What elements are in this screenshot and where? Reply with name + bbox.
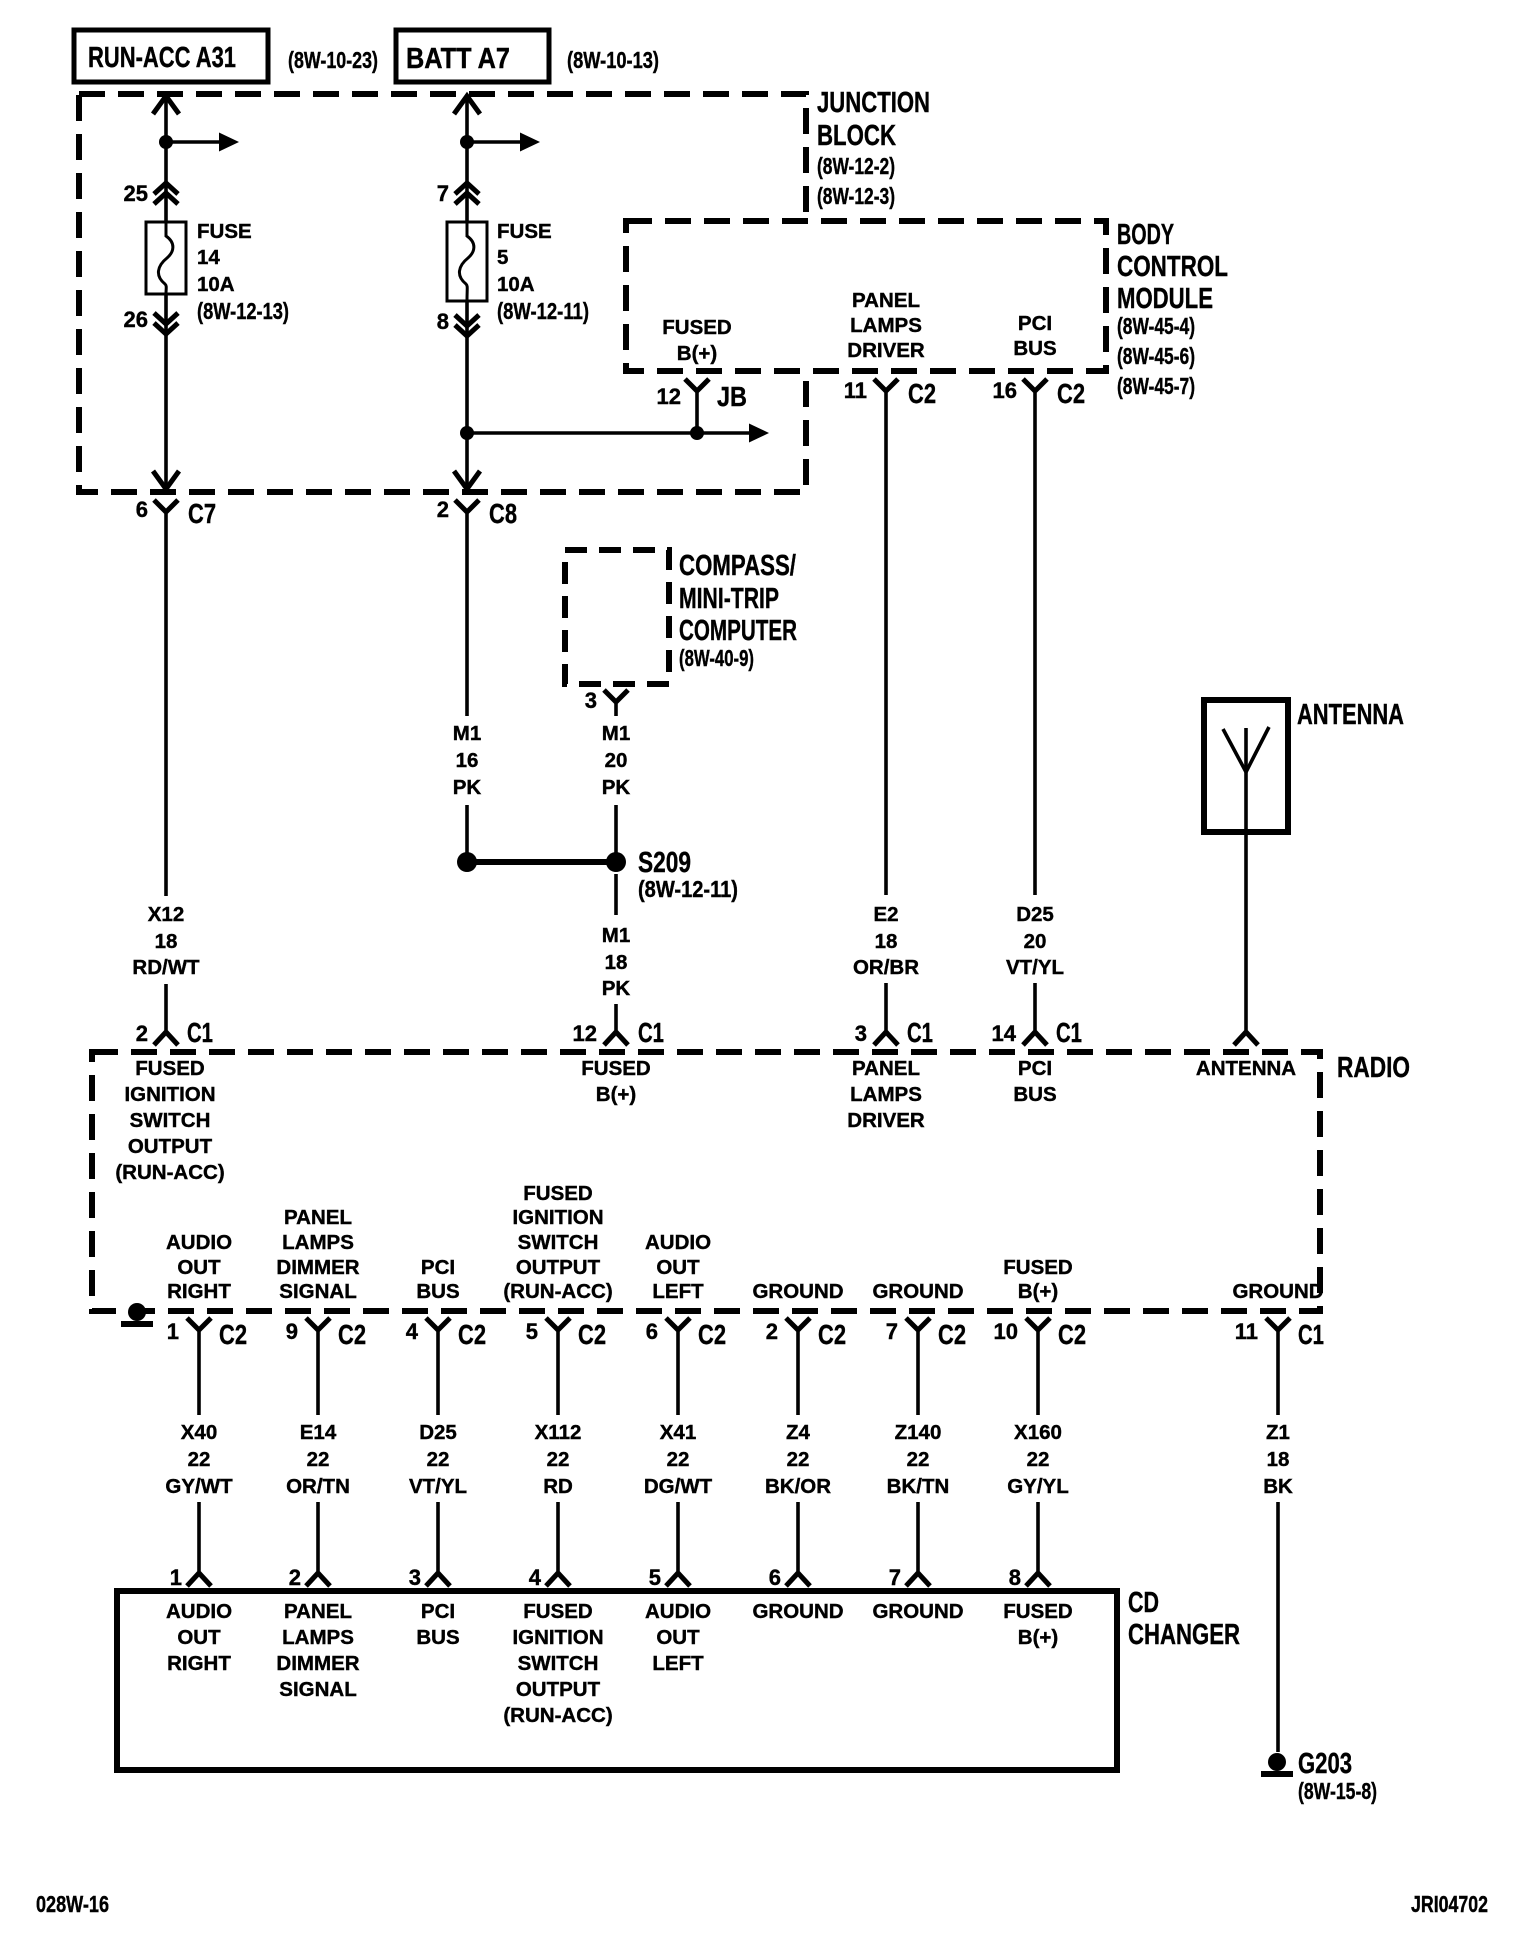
- svg-text:DIMMER: DIMMER: [276, 1256, 359, 1279]
- svg-text:SWITCH: SWITCH: [130, 1109, 211, 1132]
- antenna symbol: [1244, 728, 1248, 831]
- node junction on RUN-ACC feed: [159, 135, 173, 149]
- svg-text:2: 2: [766, 1319, 778, 1344]
- svg-text:D25: D25: [1016, 903, 1054, 926]
- svg-text:RUN-ACC A31: RUN-ACC A31: [88, 42, 236, 74]
- svg-text:FUSE: FUSE: [497, 220, 552, 243]
- svg-text:PCI: PCI: [421, 1600, 455, 1623]
- wire D25 22 VT/YL: [436, 1330, 440, 1415]
- svg-text:DRIVER: DRIVER: [847, 1109, 925, 1132]
- svg-text:BUS: BUS: [416, 1626, 459, 1649]
- svg-text:2: 2: [437, 497, 449, 522]
- svg-text:(RUN-ACC): (RUN-ACC): [503, 1280, 612, 1303]
- splice S209 right node: [606, 852, 626, 872]
- svg-text:BK/OR: BK/OR: [765, 1475, 831, 1498]
- svg-text:PK: PK: [602, 977, 631, 1000]
- svg-text:BK: BK: [1263, 1475, 1293, 1498]
- svg-text:C2: C2: [338, 1319, 366, 1350]
- svg-text:LAMPS: LAMPS: [850, 1083, 922, 1106]
- arrow down to junction block edge: [454, 471, 480, 489]
- svg-text:B(+): B(+): [677, 342, 717, 365]
- svg-text:IGNITION: IGNITION: [512, 1206, 603, 1229]
- svg-text:25: 25: [124, 181, 148, 206]
- svg-text:COMPUTER: COMPUTER: [679, 615, 797, 647]
- svg-text:C2: C2: [1057, 378, 1085, 409]
- svg-text:AUDIO: AUDIO: [166, 1231, 232, 1254]
- svg-text:11: 11: [844, 378, 867, 403]
- svg-text:LAMPS: LAMPS: [850, 314, 922, 337]
- node junction on BATT feed: [460, 135, 474, 149]
- svg-text:C1: C1: [638, 1017, 664, 1048]
- svg-text:SIGNAL: SIGNAL: [279, 1678, 356, 1701]
- svg-text:(8W-15-8): (8W-15-8): [1298, 1778, 1377, 1804]
- svg-text:16: 16: [993, 378, 1017, 403]
- antenna connector at radio: [1234, 1032, 1258, 1045]
- svg-text:DIMMER: DIMMER: [276, 1652, 359, 1675]
- svg-text:CD: CD: [1128, 1587, 1159, 1619]
- wire X112 22 RD: [556, 1330, 560, 1415]
- svg-text:BODY: BODY: [1117, 219, 1174, 251]
- svg-text:RD/WT: RD/WT: [132, 956, 200, 979]
- svg-text:FUSED: FUSED: [581, 1057, 650, 1080]
- svg-text:X160: X160: [1014, 1421, 1062, 1444]
- svg-text:OUTPUT: OUTPUT: [516, 1256, 601, 1279]
- svg-text:028W-16: 028W-16: [36, 1891, 109, 1917]
- svg-text:14: 14: [992, 1021, 1017, 1046]
- svg-text:LAMPS: LAMPS: [282, 1231, 354, 1254]
- svg-text:5: 5: [526, 1319, 538, 1344]
- svg-text:GY/YL: GY/YL: [1007, 1475, 1069, 1498]
- svg-text:M1: M1: [602, 924, 630, 947]
- svg-text:22: 22: [427, 1448, 450, 1471]
- svg-text:GROUND: GROUND: [872, 1600, 963, 1623]
- compass mini-trip computer dashed box: [565, 550, 669, 684]
- svg-text:(8W-12-3): (8W-12-3): [817, 183, 895, 209]
- svg-text:FUSED: FUSED: [135, 1057, 204, 1080]
- svg-text:AUDIO: AUDIO: [645, 1231, 711, 1254]
- svg-text:OUT: OUT: [177, 1626, 221, 1649]
- svg-text:B(+): B(+): [1018, 1626, 1058, 1649]
- svg-text:5: 5: [649, 1565, 661, 1590]
- cd changer box: [117, 1591, 1117, 1770]
- wire Z1 18 BK ground lead: [1276, 1330, 1280, 1415]
- svg-text:B(+): B(+): [1018, 1280, 1058, 1303]
- svg-text:(8W-12-11): (8W-12-11): [638, 876, 738, 902]
- splice S209 bus wire: [467, 859, 616, 865]
- svg-text:PK: PK: [453, 776, 482, 799]
- svg-text:E2: E2: [873, 903, 898, 926]
- svg-text:JB: JB: [717, 381, 747, 412]
- svg-text:10A: 10A: [197, 273, 235, 296]
- svg-text:E14: E14: [300, 1421, 337, 1444]
- wire fuse 5 to C8: [465, 301, 469, 489]
- svg-text:22: 22: [547, 1448, 570, 1471]
- svg-text:(8W-12-2): (8W-12-2): [817, 153, 895, 179]
- svg-text:FUSED: FUSED: [1003, 1600, 1072, 1623]
- svg-text:(RUN-ACC): (RUN-ACC): [115, 1161, 224, 1184]
- svg-text:GROUND: GROUND: [752, 1600, 843, 1623]
- svg-text:S209: S209: [638, 847, 691, 879]
- wire fused B+ branch with arrow: [467, 431, 749, 435]
- svg-text:BK/TN: BK/TN: [887, 1475, 950, 1498]
- svg-text:ANTENNA: ANTENNA: [1196, 1057, 1296, 1080]
- svg-text:X40: X40: [181, 1421, 217, 1444]
- svg-text:C1: C1: [907, 1017, 933, 1048]
- svg-text:C7: C7: [188, 498, 216, 529]
- svg-text:8: 8: [1009, 1565, 1021, 1590]
- svg-text:FUSED: FUSED: [1003, 1256, 1072, 1279]
- connector pin 7 chevrons: [455, 183, 479, 194]
- svg-text:10: 10: [994, 1319, 1018, 1344]
- wire M1 18 PK to radio: [614, 874, 618, 915]
- svg-text:CONTROL: CONTROL: [1117, 251, 1228, 283]
- svg-text:PCI: PCI: [421, 1256, 455, 1279]
- arrow down to junction block edge: [153, 471, 179, 489]
- branch arrow right from BATT: [467, 140, 521, 144]
- fuse 14 10A: [146, 222, 186, 294]
- svg-text:OUTPUT: OUTPUT: [128, 1135, 213, 1158]
- svg-text:Z140: Z140: [895, 1421, 942, 1444]
- svg-text:BATT A7: BATT A7: [406, 43, 510, 75]
- connector pin 8 chevrons: [455, 315, 479, 326]
- svg-text:C2: C2: [698, 1319, 726, 1350]
- svg-text:3: 3: [409, 1565, 421, 1590]
- arrow up into BATT A7: [454, 96, 480, 114]
- svg-text:C2: C2: [1058, 1319, 1086, 1350]
- antenna box: [1204, 700, 1288, 832]
- svg-text:SWITCH: SWITCH: [518, 1231, 599, 1254]
- svg-text:VT/YL: VT/YL: [409, 1475, 467, 1498]
- radio dashed box: [92, 1052, 1320, 1311]
- svg-text:PCI: PCI: [1018, 312, 1052, 335]
- svg-text:X112: X112: [535, 1421, 582, 1444]
- svg-text:SWITCH: SWITCH: [518, 1652, 599, 1675]
- svg-text:MINI-TRIP: MINI-TRIP: [679, 583, 779, 615]
- ground G203: [1268, 1753, 1286, 1771]
- svg-text:6: 6: [136, 497, 148, 522]
- svg-text:OR/TN: OR/TN: [286, 1475, 350, 1498]
- svg-text:PK: PK: [602, 776, 631, 799]
- svg-text:GY/WT: GY/WT: [165, 1475, 233, 1498]
- wire X40 22 GY/WT: [197, 1330, 201, 1415]
- svg-text:GROUND: GROUND: [872, 1280, 963, 1303]
- svg-text:IGNITION: IGNITION: [124, 1083, 215, 1106]
- svg-text:VT/YL: VT/YL: [1006, 956, 1064, 979]
- svg-text:LAMPS: LAMPS: [282, 1626, 354, 1649]
- wire D25 20 VT/YL: [1033, 391, 1037, 895]
- svg-text:22: 22: [787, 1448, 810, 1471]
- svg-text:BUS: BUS: [1013, 1083, 1056, 1106]
- svg-text:(8W-12-13): (8W-12-13): [197, 298, 289, 324]
- fuse 5 10A: [447, 222, 487, 301]
- node junction to fused B+ branch: [460, 426, 474, 440]
- svg-text:BUS: BUS: [1013, 337, 1056, 360]
- svg-text:ANTENNA: ANTENNA: [1297, 699, 1404, 731]
- svg-text:LEFT: LEFT: [652, 1652, 704, 1675]
- svg-text:M1: M1: [453, 722, 481, 745]
- svg-text:C1: C1: [1298, 1319, 1324, 1350]
- svg-text:RADIO: RADIO: [1337, 1052, 1410, 1084]
- wire X41 22 DG/WT: [676, 1330, 680, 1415]
- svg-text:RD: RD: [543, 1475, 573, 1498]
- svg-text:18: 18: [875, 930, 898, 953]
- wire BATT feed: [465, 96, 469, 222]
- svg-text:JUNCTION: JUNCTION: [817, 87, 930, 119]
- svg-text:11: 11: [1235, 1319, 1258, 1344]
- svg-text:PCI: PCI: [1018, 1057, 1052, 1080]
- power node box RUN-ACC A31: [74, 30, 268, 82]
- svg-text:X41: X41: [660, 1421, 696, 1444]
- svg-text:SIGNAL: SIGNAL: [279, 1280, 356, 1303]
- svg-text:PANEL: PANEL: [852, 289, 920, 312]
- wire antenna lead to radio: [1244, 832, 1248, 1032]
- svg-text:4: 4: [529, 1565, 542, 1590]
- svg-text:1: 1: [170, 1565, 182, 1590]
- svg-text:3: 3: [855, 1021, 867, 1046]
- power node box BATT A7: [396, 30, 549, 82]
- svg-text:Z1: Z1: [1266, 1421, 1290, 1444]
- svg-text:20: 20: [605, 749, 628, 772]
- svg-text:AUDIO: AUDIO: [645, 1600, 711, 1623]
- svg-text:5: 5: [497, 246, 508, 269]
- svg-text:X12: X12: [148, 903, 184, 926]
- svg-text:C2: C2: [818, 1319, 846, 1350]
- svg-text:(8W-45-4): (8W-45-4): [1117, 313, 1195, 339]
- svg-text:6: 6: [646, 1319, 658, 1344]
- svg-text:12: 12: [573, 1021, 597, 1046]
- svg-text:22: 22: [1027, 1448, 1050, 1471]
- svg-text:16: 16: [456, 749, 479, 772]
- svg-text:(8W-40-9): (8W-40-9): [679, 645, 754, 671]
- svg-text:LEFT: LEFT: [652, 1280, 704, 1303]
- svg-text:DRIVER: DRIVER: [847, 339, 925, 362]
- wire X160 22 GY/YL: [1036, 1330, 1040, 1415]
- svg-text:18: 18: [1267, 1448, 1290, 1471]
- svg-text:C1: C1: [187, 1017, 213, 1048]
- svg-text:CHANGER: CHANGER: [1128, 1619, 1240, 1651]
- svg-text:22: 22: [907, 1448, 930, 1471]
- svg-text:C2: C2: [938, 1319, 966, 1350]
- svg-text:20: 20: [1024, 930, 1047, 953]
- svg-text:10A: 10A: [497, 273, 535, 296]
- wire fuse 14 to C7: [164, 294, 168, 489]
- svg-text:(8W-10-13): (8W-10-13): [567, 47, 659, 73]
- svg-text:OR/BR: OR/BR: [853, 956, 919, 979]
- svg-text:1: 1: [167, 1319, 179, 1344]
- svg-text:PANEL: PANEL: [284, 1600, 352, 1623]
- svg-text:G203: G203: [1298, 1748, 1352, 1780]
- node junction at JB pin 12: [690, 426, 704, 440]
- svg-text:C2: C2: [219, 1319, 247, 1350]
- svg-text:C8: C8: [489, 498, 517, 529]
- svg-text:7: 7: [437, 181, 449, 206]
- svg-text:OUTPUT: OUTPUT: [516, 1678, 601, 1701]
- svg-text:2: 2: [136, 1021, 148, 1046]
- svg-text:9: 9: [286, 1319, 298, 1344]
- wire M1 20 PK: [614, 702, 618, 716]
- svg-text:C2: C2: [458, 1319, 486, 1350]
- wire M1 16 PK: [465, 512, 469, 716]
- svg-text:C2: C2: [578, 1319, 606, 1350]
- svg-text:(8W-10-23): (8W-10-23): [288, 47, 378, 73]
- svg-text:RIGHT: RIGHT: [167, 1280, 231, 1303]
- svg-text:6: 6: [769, 1565, 781, 1590]
- svg-text:PANEL: PANEL: [284, 1206, 352, 1229]
- svg-text:2: 2: [289, 1565, 301, 1590]
- svg-text:18: 18: [605, 951, 628, 974]
- svg-text:4: 4: [406, 1319, 419, 1344]
- svg-text:JRI04702: JRI04702: [1411, 1891, 1488, 1917]
- svg-text:B(+): B(+): [596, 1083, 636, 1106]
- svg-text:OUT: OUT: [656, 1626, 700, 1649]
- svg-text:OUT: OUT: [656, 1256, 700, 1279]
- svg-text:GROUND: GROUND: [752, 1280, 843, 1303]
- svg-text:FUSED: FUSED: [523, 1600, 592, 1623]
- svg-text:PANEL: PANEL: [852, 1057, 920, 1080]
- svg-text:AUDIO: AUDIO: [166, 1600, 232, 1623]
- svg-text:BLOCK: BLOCK: [817, 120, 896, 152]
- wire E2 18 OR/BR: [884, 391, 888, 895]
- svg-text:C1: C1: [1056, 1017, 1082, 1048]
- svg-text:MODULE: MODULE: [1117, 283, 1213, 315]
- svg-text:22: 22: [188, 1448, 211, 1471]
- wire X12 18 RD/WT: [164, 512, 168, 896]
- svg-text:DG/WT: DG/WT: [644, 1475, 713, 1498]
- connector pin 25 chevrons: [154, 183, 178, 194]
- svg-text:FUSE: FUSE: [197, 220, 252, 243]
- svg-text:22: 22: [307, 1448, 330, 1471]
- svg-text:RIGHT: RIGHT: [167, 1652, 231, 1675]
- splice S209 left node: [457, 852, 477, 872]
- svg-text:OUT: OUT: [177, 1256, 221, 1279]
- arrow up into RUN-ACC A31: [153, 96, 179, 114]
- svg-text:FUSED: FUSED: [662, 316, 731, 339]
- svg-text:22: 22: [667, 1448, 690, 1471]
- svg-text:Z4: Z4: [786, 1421, 811, 1444]
- svg-text:FUSED: FUSED: [523, 1182, 592, 1205]
- svg-text:(8W-12-11): (8W-12-11): [497, 298, 589, 324]
- body control module dashed box: [626, 221, 1106, 371]
- svg-text:C2: C2: [908, 378, 936, 409]
- wire RUN-ACC feed: [164, 96, 168, 222]
- svg-text:7: 7: [886, 1319, 898, 1344]
- svg-text:(8W-45-6): (8W-45-6): [1117, 343, 1195, 369]
- svg-text:IGNITION: IGNITION: [512, 1626, 603, 1649]
- svg-text:(8W-45-7): (8W-45-7): [1117, 373, 1195, 399]
- svg-text:M1: M1: [602, 722, 630, 745]
- svg-text:14: 14: [197, 246, 220, 269]
- radio ground symbol at case: [128, 1303, 146, 1321]
- wire Z4 22 BK/OR: [796, 1330, 800, 1415]
- connector pin 26 chevrons: [154, 313, 178, 324]
- svg-text:3: 3: [585, 688, 597, 713]
- svg-text:COMPASS/: COMPASS/: [679, 550, 796, 582]
- junction block dashed box: [79, 94, 806, 492]
- wire Z140 22 BK/TN: [916, 1330, 920, 1415]
- svg-text:8: 8: [437, 309, 449, 334]
- svg-text:18: 18: [155, 930, 178, 953]
- wire E14 22 OR/TN: [316, 1330, 320, 1415]
- svg-text:GROUND: GROUND: [1232, 1280, 1323, 1303]
- svg-text:26: 26: [124, 307, 148, 332]
- svg-text:(RUN-ACC): (RUN-ACC): [503, 1704, 612, 1727]
- svg-text:BUS: BUS: [416, 1280, 459, 1303]
- svg-text:7: 7: [889, 1565, 901, 1590]
- svg-text:12: 12: [657, 384, 681, 409]
- svg-text:D25: D25: [419, 1421, 457, 1444]
- branch arrow right: [166, 140, 219, 144]
